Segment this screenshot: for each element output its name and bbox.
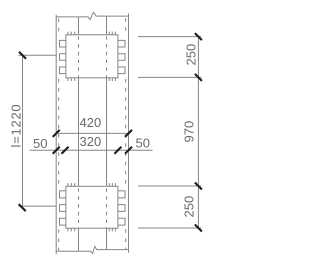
tick right dim 1 xyxy=(195,33,202,40)
svg-text:l=1220: l=1220 xyxy=(9,104,24,148)
right dimension line xyxy=(197,37,199,228)
lower plate left side weld brackets xyxy=(60,191,66,225)
tick left dim top xyxy=(19,52,26,59)
upper splice plate xyxy=(66,35,118,78)
lower splice plate xyxy=(66,186,118,228)
420 dimension line xyxy=(56,132,128,134)
right extension line 1 xyxy=(138,36,201,38)
outer left member line xyxy=(55,15,57,254)
inner left member line hidden behind plates (dashed) xyxy=(78,36,80,78)
svg-text:50: 50 xyxy=(136,136,150,151)
lower plate bottom weld combs xyxy=(68,228,116,231)
tick right dim 2 xyxy=(195,74,202,81)
svg-text:970: 970 xyxy=(182,121,197,143)
hidden (dashed) right member line xyxy=(125,18,127,35)
tick left dim bottom xyxy=(19,204,26,211)
tick 420 right xyxy=(125,130,132,137)
left dimension extension line bottom xyxy=(19,205,57,207)
member top edge with break symbol xyxy=(56,12,128,19)
left dimension line l=1220 xyxy=(22,55,24,206)
upper plate left side weld brackets xyxy=(60,40,66,73)
svg-text:420: 420 xyxy=(80,115,102,130)
tick 320 line at x118 xyxy=(114,147,121,154)
dimension texts xyxy=(9,44,199,218)
lower plate top weld combs xyxy=(68,183,116,186)
tick right dim 3 xyxy=(195,183,202,190)
tick right dim 4 xyxy=(195,225,202,232)
inner right member line hidden behind plates (dashed) xyxy=(106,36,108,78)
left dimension extension line top xyxy=(19,54,57,56)
320/50 dimension line xyxy=(30,149,153,151)
upper plate right side weld brackets xyxy=(118,40,125,73)
svg-text:250: 250 xyxy=(182,196,197,218)
lower plate right side weld brackets xyxy=(118,191,125,225)
svg-text:50: 50 xyxy=(33,136,47,151)
right extension line 2 xyxy=(138,76,201,78)
right extension line 4 xyxy=(138,227,201,229)
tick 320 line at x128.5 xyxy=(125,147,132,154)
outer right member line xyxy=(128,14,130,253)
svg-text:320: 320 xyxy=(80,134,102,149)
tick 320 line at x56 xyxy=(53,147,60,154)
right extension line 3 xyxy=(138,185,201,187)
svg-text:250: 250 xyxy=(184,44,199,66)
tick 320 line at x65 xyxy=(62,147,69,154)
hidden (dashed) left member line xyxy=(58,19,60,35)
dimension tick marks (black slashes) xyxy=(19,33,202,231)
inner left member line (solid segments) xyxy=(78,17,80,35)
upper plate top weld combs xyxy=(68,32,116,35)
inner right member line (solid segments) xyxy=(106,16,108,35)
member bottom edge with break symbol xyxy=(56,246,128,253)
upper plate bottom weld combs xyxy=(68,78,116,81)
tick 420 left xyxy=(53,130,60,137)
